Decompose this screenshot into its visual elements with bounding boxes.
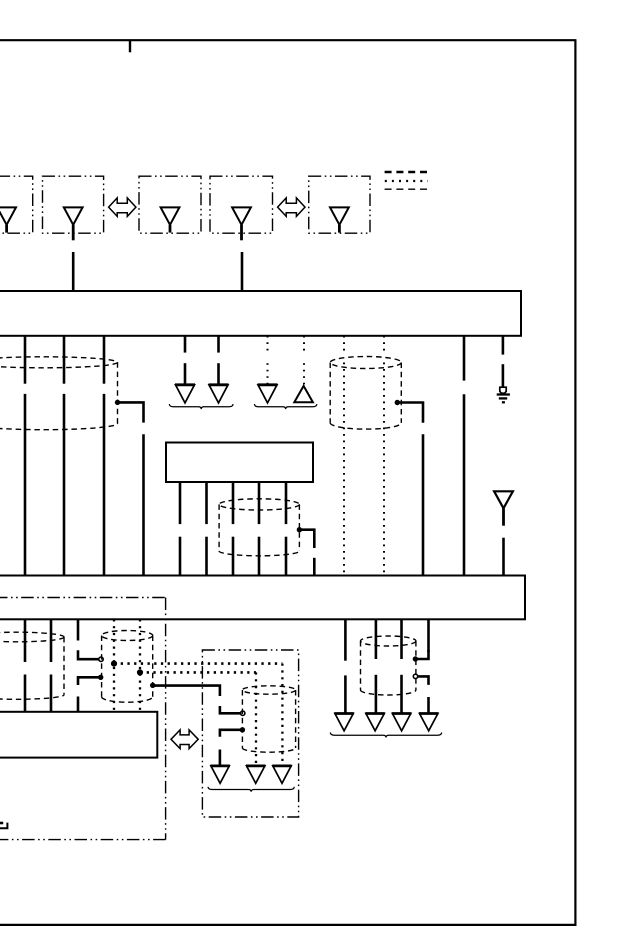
dotted wire W8 xyxy=(343,336,345,352)
cable shield S2 xyxy=(330,357,401,369)
antenna triangle in U2 xyxy=(64,207,83,224)
ground triangle T7 xyxy=(273,766,291,783)
control unit boundary B1 top edge xyxy=(0,597,166,599)
splice dot D1 on W22 xyxy=(111,661,117,667)
unit box U4 xyxy=(210,176,273,233)
wire W28 lower xyxy=(400,675,403,714)
connector triangle T1 xyxy=(176,385,195,403)
antenna symbol stem xyxy=(502,508,505,525)
splice dot D2 on W23 xyxy=(137,669,143,675)
page bottom border xyxy=(0,924,576,926)
wire W29 elbow to shield S7 xyxy=(417,650,429,659)
dotted wire W9 xyxy=(383,336,385,352)
component box K1 xyxy=(166,443,313,483)
wire W18 lower xyxy=(24,675,27,712)
component box K2 (cut off at left) xyxy=(0,712,157,758)
antenna triangle in U3 xyxy=(161,207,180,224)
body ground G1 bar 2 xyxy=(499,397,507,399)
drain wire segment to ring xyxy=(220,706,241,713)
wire W13 lower xyxy=(179,537,182,576)
wire W21 lower xyxy=(77,697,80,712)
wire W15 lower xyxy=(232,537,235,576)
wire W11 lower xyxy=(502,364,505,386)
wire W16 xyxy=(258,482,261,524)
ground triangle T5 xyxy=(211,766,229,783)
connection dot on shield S7 xyxy=(413,656,418,661)
wire W17 xyxy=(285,482,288,524)
U3 triangle stem xyxy=(169,225,172,233)
ground triangle T10 xyxy=(392,714,410,731)
body ground G1 bar 1 xyxy=(497,393,510,395)
connection ring on shield S6 xyxy=(241,711,245,715)
dotted link wire from D1 xyxy=(114,662,282,665)
legend thick dashed line xyxy=(385,171,428,174)
legend thin dashed line xyxy=(385,188,428,190)
unit box U3 xyxy=(139,176,201,233)
shield S3 drain junction xyxy=(297,527,302,532)
shield S2 drain wire xyxy=(397,403,423,423)
body ground G1 cup xyxy=(500,387,506,393)
antenna triangle in U5 xyxy=(330,207,349,224)
wire W10 xyxy=(463,336,466,381)
wire W26 lower xyxy=(344,675,347,713)
double arrow A3 between control units xyxy=(171,730,198,749)
ground triangle T11 xyxy=(420,714,438,731)
wire W16 lower xyxy=(258,537,261,576)
wire W2 xyxy=(63,336,66,384)
dotted wire W7 xyxy=(303,336,305,353)
wire W11 xyxy=(502,336,505,355)
page right border xyxy=(574,39,576,926)
shield S1 drain wire lower xyxy=(142,434,145,575)
wire W17 lower xyxy=(285,537,288,576)
shield S1 drain junction xyxy=(115,400,120,405)
connector triangle T3 xyxy=(258,385,277,403)
wire W13 xyxy=(179,482,182,524)
wire W1 lower xyxy=(24,394,27,576)
cable shield S5 xyxy=(102,631,153,641)
cable shield S7 xyxy=(361,636,416,646)
dotted wire W24 xyxy=(255,672,257,766)
wire W14 lower xyxy=(205,537,208,576)
shield S1 drain wire xyxy=(118,402,144,422)
control unit boundary B1 right edge xyxy=(165,598,167,840)
dotted wire W8 lower xyxy=(343,363,345,576)
shield S3 drain wire lower xyxy=(313,558,316,576)
wire W3 xyxy=(103,336,106,384)
connector triangle T4 (upward) xyxy=(294,386,313,402)
dotted wire W9 lower xyxy=(383,363,385,576)
wire W20 xyxy=(77,619,80,640)
bracket under T1 T2 xyxy=(169,404,233,409)
wire W1 xyxy=(24,336,27,384)
dotted wire W6 lower xyxy=(267,363,269,385)
dotted wire W25 xyxy=(281,664,283,767)
wire W26 xyxy=(344,619,347,660)
wire W28 xyxy=(400,619,403,659)
unit box U5 xyxy=(309,176,370,233)
wire from U4 to bus J1 xyxy=(241,252,244,292)
bracket under T5 T6 T7 xyxy=(208,787,294,792)
wire W27 xyxy=(375,619,378,659)
wire W5 lower xyxy=(217,363,220,385)
shield S5 drain wire xyxy=(153,686,220,696)
wire W14 xyxy=(205,482,208,524)
wire W19 xyxy=(50,619,53,662)
cut-off label mark corner xyxy=(0,823,7,829)
wire W12 from antenna to J2 xyxy=(502,538,505,576)
wire from U2 to bus J1 xyxy=(72,252,75,292)
U5 triangle stem xyxy=(338,225,341,233)
dotted wire W7 lower xyxy=(303,363,305,386)
dotted wire W23 xyxy=(139,619,141,712)
wire W3 lower xyxy=(103,394,106,576)
shield S2 drain junction xyxy=(395,400,400,405)
top border tick mark xyxy=(129,40,131,52)
U2 triangle stem xyxy=(72,225,75,241)
shield S3 drain wire xyxy=(299,530,314,548)
connection ring on shield S7 lower xyxy=(413,674,417,678)
cable shield S6 xyxy=(242,686,295,694)
antenna symbol triangle xyxy=(494,491,513,508)
ground triangle T8 xyxy=(335,714,353,731)
shield S2 drain wire lower xyxy=(422,434,425,575)
bracket under T3 T4 xyxy=(254,404,317,409)
wire W2 lower xyxy=(63,394,66,576)
U1 triangle stem xyxy=(5,225,8,233)
cable shield S3 xyxy=(219,499,299,510)
page top border xyxy=(0,39,576,41)
antenna triangle in U1 xyxy=(0,207,16,224)
antenna triangle in U4 xyxy=(232,207,251,224)
ground triangle T9 xyxy=(366,714,384,731)
wire W4 lower xyxy=(184,363,187,385)
wire W29 xyxy=(427,619,430,652)
connection ring on shield S5 xyxy=(99,657,103,661)
dotted link wire from D2 xyxy=(140,671,256,674)
connection dot on shield S5 lower xyxy=(98,675,103,680)
unit box U2 xyxy=(43,176,104,233)
double arrow A2 between U4 and U5 xyxy=(278,198,305,217)
double arrow A1 between U2 and U3 xyxy=(109,198,136,217)
connection dot on shield S6 xyxy=(240,727,245,732)
relay unit boundary B2 xyxy=(202,650,298,817)
dotted wire W6 xyxy=(267,336,269,353)
body ground G1 bar 3 xyxy=(502,401,505,403)
wire W20 stub to shield S5 xyxy=(78,650,99,659)
shield S5 drain junction xyxy=(150,683,155,688)
cable shield S4 (cut off at left) xyxy=(0,632,64,642)
wire W30 lower xyxy=(427,697,430,714)
wire W30 elbow from shield S7 xyxy=(418,676,429,685)
wire to ground triangle T5 xyxy=(219,750,222,766)
wire W10 lower xyxy=(463,394,466,575)
wire W15 xyxy=(232,482,235,524)
U4 triangle stem xyxy=(240,225,243,241)
control unit boundary B1 bottom edge xyxy=(0,839,166,841)
bracket under T8-T11 xyxy=(330,733,441,738)
wire W4 xyxy=(184,336,187,353)
bus connector J2 xyxy=(0,576,525,620)
legend dotted line xyxy=(385,180,428,182)
unit box U1 (cut off at left edge) xyxy=(0,176,33,233)
wire W21 stub from shield S5 xyxy=(78,677,99,685)
bus connector J1 xyxy=(0,291,521,336)
wire W18 xyxy=(24,619,27,662)
wire W27 lower xyxy=(375,675,378,714)
wire segment from S6 dot xyxy=(220,730,241,737)
cut-off label mark dash xyxy=(0,822,3,825)
connector triangle T2 xyxy=(209,385,228,403)
cable shield S1 xyxy=(0,357,118,368)
ground triangle T6 xyxy=(247,766,265,783)
wire W5 xyxy=(217,336,220,353)
wire W19 lower xyxy=(50,675,53,712)
dotted wire W22 xyxy=(113,619,115,712)
